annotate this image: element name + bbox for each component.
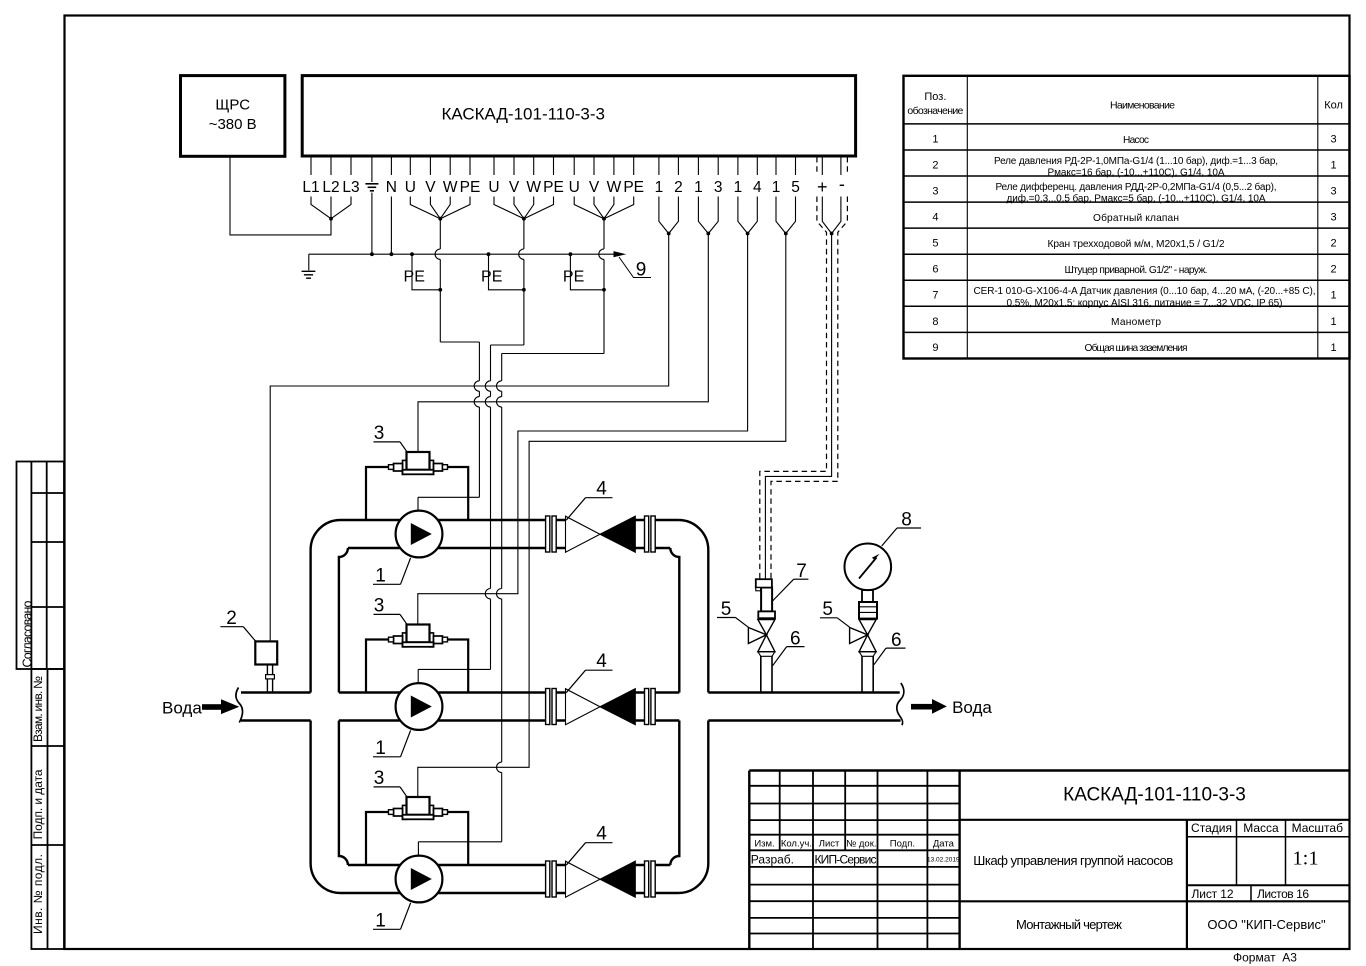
svg-text:3: 3	[1331, 212, 1337, 224]
svg-text:2: 2	[226, 608, 237, 629]
svg-text:Изм.: Изм.	[754, 838, 774, 849]
inlet pipe break symbol	[236, 688, 243, 723]
label 3 relay 1	[374, 423, 408, 452]
svg-text:Подп. и дата: Подп. и дата	[31, 769, 45, 839]
svg-text:5: 5	[721, 599, 732, 620]
svg-text:1: 1	[1331, 342, 1337, 354]
parts table row 5	[932, 238, 1336, 250]
svg-text:W: W	[526, 179, 541, 196]
parts table row 2	[932, 155, 1336, 179]
svg-text:V: V	[589, 179, 600, 196]
svg-text:4: 4	[596, 651, 607, 672]
cable shield dashed outline at terminals	[817, 157, 848, 249]
PE wire motor group 1	[412, 254, 440, 290]
svg-text:2: 2	[1331, 238, 1337, 250]
inlet pipe walls	[241, 693, 311, 721]
check valve branch 1 (item 4)	[546, 516, 656, 552]
check valve branch 3 (item 4)	[546, 861, 656, 897]
label 4 check valve 3	[566, 824, 612, 866]
svg-text:L1: L1	[302, 179, 319, 196]
svg-text:Формат А3: Формат А3	[1233, 951, 1297, 965]
svg-text:2: 2	[674, 179, 683, 196]
outlet pipe walls	[708, 693, 900, 721]
svg-text:-: -	[839, 174, 845, 194]
svg-text:1: 1	[772, 179, 781, 196]
svg-text:7: 7	[796, 561, 807, 582]
svg-text:диф.=0,3...0,5 бар, Рмакс=5 ба: диф.=0,3...0,5 бар, Рмакс=5 бар, (-10...…	[1007, 193, 1266, 205]
svg-text:+: +	[817, 177, 828, 197]
title block row Разраб	[751, 853, 960, 867]
PE wire motor group 2	[489, 254, 524, 290]
svg-text:Реле давления РД-2Р-1,0МПа-G1/: Реле давления РД-2Р-1,0МПа-G1/4 (1...10 …	[994, 155, 1278, 167]
motor cable pump 3	[418, 219, 604, 856]
controller cabinet КАСКАД-101-110-3-3	[302, 76, 855, 156]
manometer (item 8)	[845, 544, 892, 619]
parts table header	[907, 91, 1343, 117]
svg-text:4: 4	[596, 824, 607, 845]
title block sheet numbers	[1192, 887, 1310, 901]
control cable terminals 1,3 to diff relay 3 branch 1	[418, 234, 708, 453]
left margin stamp block upper (Согласовано)	[17, 462, 65, 670]
label 4 check valve 1	[566, 479, 612, 521]
label 3 relay 3	[374, 768, 408, 797]
svg-text:PE: PE	[623, 179, 644, 196]
svg-text:5: 5	[822, 599, 833, 620]
right manifold pipe	[678, 520, 708, 893]
motor cable pump 1	[418, 219, 479, 511]
check valve branch 2 (item 4)	[546, 689, 656, 725]
terminals L1 L2 L3 with merge to one line	[311, 157, 351, 219]
svg-text:Лист: Лист	[819, 838, 840, 849]
label 6 nipple left	[773, 628, 805, 665]
three-way valve and nipple under sensor (items 5,6)	[748, 620, 775, 693]
outlet flow arrow	[911, 699, 947, 714]
svg-text:Поз.: Поз.	[924, 91, 946, 103]
svg-text:Рмакс=16 бар, (-10...+110С), G: Рмакс=16 бар, (-10...+110С), G1/4, 10А	[1048, 167, 1225, 179]
svg-text:Кран трехходовой м/м, М20х1,5: Кран трехходовой м/м, М20х1,5 / G1/2	[1048, 239, 1225, 250]
inlet flow arrow	[202, 699, 239, 714]
svg-text:Насос: Насос	[1123, 135, 1149, 146]
svg-text:5: 5	[791, 179, 800, 196]
svg-text:1: 1	[932, 134, 938, 146]
label 3 relay 2	[374, 595, 408, 624]
svg-text:Вода: Вода	[162, 699, 202, 718]
svg-text:1: 1	[694, 179, 703, 196]
svg-text:1: 1	[1331, 316, 1337, 328]
terminals U V W PE motor group 3	[574, 157, 634, 219]
svg-text:Шкаф управления группой насосо: Шкаф управления группой насосов	[973, 853, 1173, 868]
branch pipe 1 walls	[341, 519, 679, 521]
svg-text:PE: PE	[460, 179, 481, 196]
wire N terminal to bus	[390, 197, 392, 255]
ground bus arrow head	[614, 251, 627, 257]
svg-text:1: 1	[1331, 290, 1337, 302]
terminal pair 1,4 control circuit 3	[738, 157, 757, 234]
pressure sensor CER-1 (item 7)	[756, 579, 775, 618]
left margin stamp block lower	[31, 669, 64, 949]
parts table row 4	[932, 212, 1336, 224]
ground electrode symbol	[302, 254, 316, 278]
pump 2 (item 1)	[396, 683, 443, 730]
svg-text:Кол.уч.: Кол.уч.	[781, 838, 812, 849]
svg-text:L2: L2	[322, 179, 339, 196]
svg-text:PE: PE	[543, 179, 564, 196]
terminal pair 1,2 control circuit 1	[659, 157, 679, 234]
differential pressure relay 3 (item 3)	[366, 797, 468, 865]
label 5 valve right	[820, 599, 850, 627]
svg-text:9: 9	[932, 342, 938, 354]
svg-text:Лист 12: Лист 12	[1192, 887, 1234, 901]
branch pipe 3 walls	[348, 864, 670, 866]
pressure relay (item 2)	[255, 641, 277, 692]
control cable terminals 1,2 to pressure relay 2	[270, 234, 669, 642]
svg-text:6: 6	[790, 628, 801, 649]
svg-text:КАСКАД-101-110-3-3: КАСКАД-101-110-3-3	[1063, 785, 1246, 806]
svg-text:CER-1 010-G-X106-4-A Датчик да: CER-1 010-G-X106-4-A Датчик давления (0.…	[974, 285, 1316, 297]
label 8 manometer	[882, 510, 921, 546]
power cabinet ЩРС ~380 В	[181, 76, 285, 157]
title block header texts	[754, 838, 954, 849]
svg-text:1: 1	[375, 738, 386, 759]
terminal pair 1,5 control circuit 4	[776, 157, 796, 234]
svg-text:5: 5	[932, 238, 938, 250]
svg-text:1:1: 1:1	[1292, 848, 1318, 870]
svg-text:Вода: Вода	[952, 698, 992, 717]
wire earth terminal to bus	[371, 193, 373, 255]
svg-text:6: 6	[891, 630, 902, 651]
svg-text:1: 1	[1331, 160, 1337, 172]
svg-text:Кол: Кол	[1324, 100, 1343, 112]
parts table row 6	[932, 264, 1336, 276]
motor cable pump 2	[418, 219, 524, 684]
svg-text:Наименование: Наименование	[1110, 100, 1175, 112]
label 7 sensor	[773, 561, 809, 601]
svg-text:W: W	[443, 179, 458, 196]
control cable terminals 1,5 to diff relay 3 branch 3	[418, 234, 786, 798]
svg-text:Подп.: Подп.	[890, 838, 915, 849]
svg-text:W: W	[607, 179, 622, 196]
label 5 valve left	[717, 599, 748, 627]
svg-text:Разраб.: Разраб.	[751, 853, 794, 867]
svg-text:U: U	[488, 179, 499, 196]
svg-text:Взам. инв. №: Взам. инв. №	[31, 676, 45, 742]
wire ЩРС to L1L2L3 merge	[230, 157, 331, 235]
terminal pair 1,3 control circuit 2	[698, 157, 718, 234]
svg-text:РЕ: РЕ	[563, 269, 584, 286]
svg-text:Монтажный чертеж: Монтажный чертеж	[1016, 917, 1122, 932]
svg-text:3: 3	[374, 595, 385, 616]
common ground bus item 9	[309, 253, 615, 255]
svg-text:7: 7	[932, 290, 938, 302]
svg-text:Согласовано: Согласовано	[20, 600, 34, 667]
svg-text:Инв. № подл.: Инв. № подл.	[31, 854, 45, 934]
svg-text:0.5%, М20х1.5; корпус AISI 316: 0.5%, М20х1.5; корпус AISI 316, питание …	[1007, 298, 1283, 309]
parts table row 8	[932, 316, 1336, 328]
svg-text:Штуцер приварной. G1/2" - нару: Штуцер приварной. G1/2" - наруж.	[1065, 265, 1208, 276]
svg-text:V: V	[509, 179, 520, 196]
shielded cable core to pressure sensor 7	[765, 234, 831, 580]
svg-text:3: 3	[374, 768, 385, 789]
differential pressure relay 1 (item 3)	[366, 452, 468, 520]
svg-text:9: 9	[636, 260, 647, 281]
svg-text:РЕ: РЕ	[481, 269, 502, 286]
label 6 nipple right	[874, 630, 906, 665]
svg-text:КИП-Сервис: КИП-Сервис	[815, 853, 877, 867]
svg-text:U: U	[405, 179, 416, 196]
svg-text:L3: L3	[342, 179, 359, 196]
svg-text:РЕ: РЕ	[404, 269, 425, 286]
svg-text:1: 1	[655, 179, 664, 196]
branch pipe 2 walls	[339, 691, 679, 693]
svg-text:Листов 16: Листов 16	[1257, 887, 1309, 901]
label 1 pump 3	[373, 903, 411, 931]
svg-text:№ док.: № док.	[846, 838, 876, 849]
terminal earth symbol	[365, 157, 378, 191]
svg-text:V: V	[425, 179, 436, 196]
terminal N	[390, 157, 392, 176]
svg-text:3: 3	[374, 423, 385, 444]
svg-text:~380 В: ~380 В	[209, 116, 257, 133]
svg-text:N: N	[386, 179, 397, 196]
parts table	[904, 76, 1350, 359]
svg-text:U: U	[569, 179, 580, 196]
label 9 leader	[619, 257, 651, 278]
svg-text:2: 2	[932, 160, 938, 172]
svg-text:4: 4	[932, 212, 938, 224]
three-way valve and nipple under manometer (items 5,6)	[850, 620, 877, 693]
svg-text:3: 3	[1331, 186, 1337, 198]
svg-text:1: 1	[734, 179, 743, 196]
svg-text:3: 3	[1331, 134, 1337, 146]
svg-text:13.02.2019: 13.02.2019	[927, 857, 960, 864]
shielded cable screen dashed	[760, 249, 838, 579]
svg-text:4: 4	[596, 479, 607, 500]
svg-text:Масштаб: Масштаб	[1292, 821, 1343, 835]
svg-text:Стадия: Стадия	[1191, 821, 1232, 835]
svg-text:4: 4	[753, 179, 762, 196]
parts table row 1	[932, 134, 1336, 146]
control cable terminals 1,4 to diff relay 3 branch 2	[418, 234, 748, 625]
pump 1 (item 1)	[396, 511, 443, 558]
svg-text:Манометр: Манометр	[1111, 317, 1161, 328]
left manifold pipe	[311, 520, 341, 893]
differential pressure relay 2 (item 3)	[366, 625, 468, 693]
terminal pair + - analog signal	[822, 157, 841, 234]
svg-text:ООО "КИП-Сервис": ООО "КИП-Сервис"	[1207, 917, 1326, 932]
svg-text:1: 1	[375, 910, 386, 931]
parts table row 3	[932, 181, 1336, 205]
svg-text:1: 1	[375, 565, 386, 586]
svg-text:2: 2	[1331, 264, 1337, 276]
svg-text:3: 3	[932, 186, 938, 198]
label 1 pump 1	[373, 558, 411, 586]
svg-text:КАСКАД-101-110-3-3: КАСКАД-101-110-3-3	[441, 105, 604, 124]
svg-text:8: 8	[932, 316, 938, 328]
PE wire motor group 3	[570, 254, 604, 290]
label 2 pressure relay	[220, 608, 255, 641]
parts table row 9	[932, 342, 1336, 354]
svg-text:ЩРС: ЩРС	[215, 97, 250, 114]
svg-text:Реле дифференц. давления РДД-2: Реле дифференц. давления РДД-2Р-0,2МПа-G…	[996, 181, 1277, 193]
label 4 check valve 2	[566, 651, 612, 693]
outlet pipe break symbol	[897, 683, 904, 725]
title block	[749, 771, 1349, 950]
svg-text:8: 8	[901, 510, 912, 531]
label 1 pump 2	[373, 730, 411, 758]
svg-text:Дата: Дата	[933, 838, 955, 849]
pump 3 (item 1)	[396, 856, 443, 903]
svg-text:Общая шина заземления: Общая шина заземления	[1085, 342, 1188, 354]
svg-text:обозначение: обозначение	[907, 105, 963, 117]
wire junction dots	[329, 217, 833, 292]
svg-text:6: 6	[932, 264, 938, 276]
svg-text:3: 3	[714, 179, 723, 196]
terminals U V W PE motor group 1	[410, 157, 470, 219]
svg-text:Обратный клапан: Обратный клапан	[1093, 212, 1179, 224]
svg-text:Масса: Масса	[1243, 821, 1279, 835]
terminals U V W PE motor group 2	[494, 157, 554, 219]
parts table row 7	[932, 285, 1336, 309]
title block stage mass scale	[1191, 821, 1343, 835]
